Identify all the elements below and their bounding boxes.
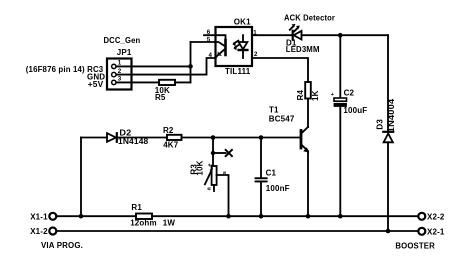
svg-text:2: 2	[254, 51, 258, 58]
wire left branch vertical (X1-1 to D2 row)	[80, 138, 82, 217]
diode D3 cathode bar	[383, 131, 393, 133]
capacitor C2 top plate	[334, 98, 347, 101]
svg-text:LED3MM: LED3MM	[286, 45, 320, 54]
terminal X2-2	[418, 213, 425, 220]
resistor R4	[305, 82, 311, 99]
OK1 phototransistor emitter with arrow	[216, 49, 226, 58]
trimmer R3 adjust arrow	[205, 172, 211, 185]
wire to D2 anode	[81, 137, 107, 139]
svg-text:D2: D2	[119, 128, 131, 137]
trimmer R3 bottom stub (pin a)	[213, 185, 215, 191]
junction dot wiper at rail	[226, 214, 231, 219]
wire bottom rail row1 X1-1 to X2-2	[57, 215, 417, 217]
svg-text:e: e	[208, 163, 214, 166]
svg-text:10K: 10K	[196, 160, 205, 175]
resistor R1	[136, 214, 152, 220]
svg-text:TIL111: TIL111	[225, 67, 251, 76]
svg-text:s: s	[222, 171, 228, 174]
svg-text:DCC_Gen: DCC_Gen	[104, 36, 141, 45]
svg-text:6: 6	[207, 29, 211, 36]
svg-text:ACK Detector: ACK Detector	[284, 14, 335, 23]
junction dot X stub	[211, 151, 215, 155]
svg-text:R5: R5	[155, 93, 166, 102]
svg-text:1N4148: 1N4148	[118, 137, 149, 146]
wire JP1 pin2 to OK1 pin4	[117, 58, 216, 75]
junction dot C2 at rail	[338, 214, 343, 219]
svg-text:+: +	[331, 92, 335, 98]
transistor T1	[301, 127, 309, 153]
junction dot C1 at rail	[259, 214, 264, 219]
terminal X1-2	[49, 228, 56, 235]
junction dot trimmer top	[211, 135, 216, 140]
svg-text:VIA PROG.: VIA PROG.	[41, 241, 83, 250]
wire node A vertical	[190, 42, 192, 82]
wire C1 to bottom rail	[260, 182, 262, 216]
OK1 phototransistor collector	[216, 42, 226, 47]
wire C2 to bottom rail	[339, 107, 341, 216]
svg-text:C1: C1	[266, 168, 277, 177]
node top junction dot at C2	[338, 33, 343, 38]
connector JP1	[107, 59, 132, 90]
resistor R2	[167, 135, 182, 140]
svg-text:1K: 1K	[311, 90, 320, 101]
terminal X2-1	[418, 228, 425, 235]
svg-text:JP1: JP1	[117, 48, 132, 57]
svg-text:4: 4	[209, 52, 213, 59]
svg-text:R4: R4	[296, 89, 305, 100]
wire JP1 pin3 to R5	[117, 81, 159, 83]
OK1 LED cathode lead	[242, 50, 244, 58]
diode D1 triangle	[294, 31, 302, 40]
diode D2 triangle	[107, 133, 116, 142]
OK1 LED cathode bar	[239, 49, 248, 51]
wire R4 to T1 collector	[307, 99, 309, 128]
svg-text:X2-1: X2-1	[427, 228, 445, 237]
svg-text:OK1: OK1	[234, 18, 251, 27]
wire node A to OK1 pin5	[191, 41, 216, 43]
capacitor C2 bottom plate	[334, 103, 347, 107]
wire OK1 pin2 to R4	[252, 58, 308, 82]
svg-text:X2-2: X2-2	[427, 212, 445, 221]
wire X stub	[213, 152, 226, 154]
X no-connection cross	[226, 150, 232, 156]
svg-text:C2: C2	[344, 88, 355, 97]
wire OK1 pin1 to D1	[252, 34, 292, 36]
diode D1 cathode bar	[292, 31, 294, 40]
wire trimmer top lead	[212, 138, 214, 167]
svg-text:X1-2: X1-2	[30, 227, 48, 236]
wire C1 top lead	[260, 138, 262, 178]
OK1 LED anode lead	[242, 35, 244, 42]
wire D3 anode to X2-1 row	[387, 142, 389, 231]
svg-text:1W: 1W	[163, 218, 176, 227]
junction dot D3 at X2-1 row	[386, 229, 391, 234]
OK1 LED triangle	[239, 42, 248, 49]
resistor R5	[159, 80, 175, 85]
wire bottom rail row2 X1-2 to X2-1	[57, 230, 417, 232]
OK1 pin 6 stub (base)	[204, 35, 226, 40]
wire D2 to R2	[117, 137, 167, 139]
svg-text:D3: D3	[376, 119, 385, 130]
svg-text:R1: R1	[131, 203, 142, 212]
D1 LED arrows	[290, 26, 294, 30]
node A junction dot	[188, 64, 193, 69]
op-amp OK1 optocoupler box	[216, 27, 253, 66]
diode D2 cathode bar	[116, 133, 118, 142]
svg-text:5: 5	[207, 36, 211, 43]
wire C2 branch vertical	[339, 35, 341, 98]
diode D3 triangle	[384, 133, 393, 142]
capacitor C1 top plate	[255, 177, 268, 179]
wire right rail top (D3 cathode side)	[387, 35, 389, 131]
junction dot C1 top	[259, 135, 264, 140]
OK1 light arrows	[234, 41, 238, 44]
wire D1 to top-right corner	[302, 34, 389, 36]
terminal X1-1	[49, 213, 56, 220]
svg-text:4K7: 4K7	[163, 140, 179, 149]
trimmer R3 wiper to rail	[217, 175, 229, 216]
capacitor C1 bottom plate	[255, 181, 268, 183]
junction dot left branch at rail	[79, 214, 84, 219]
svg-text:1N4004: 1N4004	[387, 98, 396, 132]
svg-text:BOOSTER: BOOSTER	[395, 242, 435, 251]
svg-text:12ohm: 12ohm	[130, 218, 157, 227]
svg-text:100uF: 100uF	[343, 106, 367, 115]
wire JP1 pin1 to node A	[117, 65, 191, 67]
svg-text:R2: R2	[163, 126, 174, 135]
svg-text:X1-1: X1-1	[30, 213, 48, 222]
svg-text:BC547: BC547	[269, 114, 295, 123]
wire T1 emitter to bottom rail	[307, 152, 309, 217]
junction dot T1 emitter at rail	[306, 214, 311, 219]
OK1 phototransistor base bar	[224, 40, 227, 55]
svg-text:100nF: 100nF	[266, 184, 290, 193]
svg-text:T1: T1	[269, 106, 279, 115]
trimmer R3 body	[212, 166, 217, 185]
svg-text:a: a	[206, 186, 212, 190]
wire R2 to T1 base	[182, 137, 302, 139]
svg-text:+5V: +5V	[88, 80, 104, 89]
wire R5 to node A	[175, 81, 191, 83]
